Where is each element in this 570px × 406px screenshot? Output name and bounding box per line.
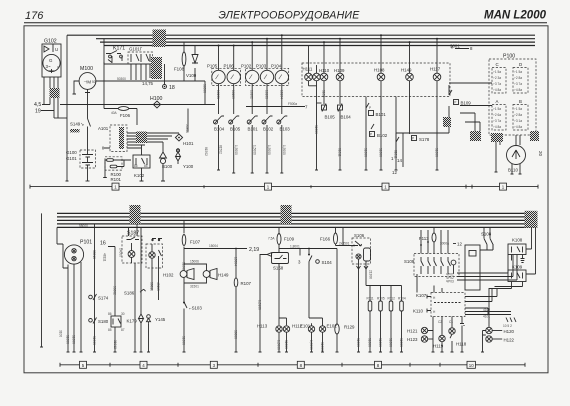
- svg-text:1,5100: 1,5100: [257, 300, 261, 310]
- svg-text:1,5000: 1,5000: [282, 145, 286, 155]
- svg-text:81502: 81502: [219, 145, 223, 154]
- svg-text:F106: F106: [120, 113, 131, 118]
- bus hatch label 30000: [153, 30, 167, 48]
- top power bus: [67, 35, 535, 45]
- svg-text:10 5 2: 10 5 2: [503, 324, 512, 328]
- svg-text:15004: 15004: [209, 244, 218, 248]
- switch S158: [257, 249, 288, 353]
- svg-text:S180: S180: [98, 319, 109, 324]
- sensor B100: [160, 142, 173, 181]
- svg-text:31000: 31000: [92, 336, 96, 345]
- svg-text:16: 16: [100, 241, 106, 247]
- svg-text:H118: H118: [456, 342, 467, 347]
- svg-text:M100: M100: [80, 66, 93, 72]
- connector strip 1 (mid): [30, 183, 538, 190]
- instrument unit P100: [489, 54, 536, 136]
- lamp E101: [300, 318, 323, 352]
- switch S149: [70, 119, 91, 151]
- svg-text:31503: 31503: [181, 262, 185, 271]
- bus junction dots: [251, 34, 438, 43]
- svg-text:31000: 31000: [72, 335, 76, 344]
- terminal 18: [163, 64, 175, 91]
- svg-text:3181: 3181: [322, 90, 326, 97]
- svg-text:4101: 4101: [483, 315, 490, 319]
- svg-text:31012: 31012: [113, 340, 117, 349]
- lamp H149: [401, 42, 413, 134]
- svg-text:H117: H117: [430, 67, 441, 72]
- svg-text:B102: B102: [263, 127, 274, 132]
- fuse F107: [182, 220, 200, 248]
- switch S178: [395, 97, 430, 171]
- sensor B101 (pressure): [365, 97, 387, 171]
- wire F500a: [246, 102, 308, 110]
- lamp H118: [449, 321, 467, 353]
- wire labels lamps: [314, 90, 439, 159]
- resistor R111: [367, 286, 374, 353]
- lamp H111: [303, 46, 317, 86]
- svg-text:85: 85: [108, 328, 112, 332]
- svg-text:14: 14: [397, 158, 402, 163]
- switch S108: [481, 227, 493, 249]
- svg-text:31501: 31501: [190, 285, 199, 289]
- speed sensor B110: [491, 133, 526, 174]
- control unit A101: [98, 125, 131, 152]
- svg-text:⌐1 5a: ⌐1 5a: [514, 70, 522, 74]
- wire label 10000: [70, 129, 80, 132]
- switch S180: [89, 318, 109, 346]
- lamp H120: [486, 327, 515, 334]
- svg-text:58000: 58000: [79, 224, 88, 228]
- svg-text:⌐S103: ⌐S103: [189, 306, 202, 311]
- svg-text:15004: 15004: [233, 257, 237, 266]
- svg-text:K110: K110: [413, 309, 423, 314]
- middle bus hatch 3: [525, 211, 538, 228]
- svg-text:Y145: Y145: [155, 317, 166, 322]
- svg-text:30010: 30010: [150, 282, 154, 291]
- switch S103: [181, 262, 202, 352]
- wire 15004 to 2,19: [184, 244, 259, 253]
- G102 pin wires: [41, 77, 58, 118]
- svg-text:A101: A101: [98, 126, 109, 131]
- lamp H109: [334, 39, 345, 104]
- gauge P103: [256, 39, 274, 114]
- svg-text:S178: S178: [419, 137, 430, 142]
- lamp E102: [319, 318, 337, 352]
- svg-text:14,75: 14,75: [142, 81, 154, 86]
- svg-text:40A: 40A: [111, 111, 118, 115]
- sensor B102 (pressure): [370, 97, 388, 171]
- svg-text:K107: K107: [416, 293, 427, 298]
- svg-text:31000: 31000: [320, 342, 324, 351]
- bottom wire labels: [219, 145, 286, 155]
- svg-text:2x8501: 2x8501: [339, 241, 350, 245]
- svg-text:K108: K108: [512, 238, 523, 243]
- switch S174: [89, 224, 109, 352]
- wire labels NP: [446, 255, 517, 284]
- gauge P106: [224, 45, 241, 115]
- gauge wire labels: [216, 90, 283, 99]
- header model: [484, 10, 547, 22]
- svg-text:P100: P100: [503, 54, 515, 60]
- svg-text:30000: 30000: [233, 330, 237, 339]
- svg-text:B105: B105: [230, 127, 241, 132]
- sender B105: [229, 116, 241, 173]
- horn H149: [202, 264, 229, 283]
- svg-text:P106: P106: [224, 64, 235, 69]
- lamp H121: [407, 321, 435, 353]
- svg-text:S106: S106: [354, 233, 365, 238]
- wire bundle to H101: [131, 132, 179, 149]
- indicator lamp cluster box: [302, 63, 450, 97]
- svg-text:Y100: Y100: [183, 164, 194, 169]
- svg-text:12: 12: [457, 242, 462, 247]
- svg-text:1,5000: 1,5000: [276, 340, 280, 350]
- gauge P105: [207, 45, 225, 115]
- sender B103: [277, 116, 291, 173]
- svg-text:B109: B109: [461, 101, 472, 106]
- svg-text:81502: 81502: [204, 147, 208, 156]
- svg-text:B104: B104: [214, 127, 225, 132]
- svg-text:B102: B102: [377, 133, 388, 138]
- svg-text:C1: C1: [449, 320, 453, 324]
- svg-text:R107: R107: [241, 281, 252, 286]
- svg-text:H109: H109: [334, 68, 345, 73]
- svg-text:87: 87: [121, 328, 125, 332]
- svg-text:H122: H122: [504, 338, 515, 343]
- lamp H119: [433, 321, 445, 353]
- svg-text:C: C: [496, 62, 499, 67]
- switch S104: [308, 249, 332, 319]
- svg-text:P: P: [369, 106, 371, 110]
- svg-text:R101: R101: [111, 177, 122, 182]
- switch S186: [124, 263, 146, 352]
- terminal 16: [100, 241, 117, 311]
- svg-text:31000: 31000: [66, 335, 70, 344]
- svg-text:4102: 4102: [483, 308, 490, 312]
- svg-text:F108: F108: [174, 67, 185, 72]
- header rule: [24, 22, 547, 24]
- svg-text:⊣M: ⊣M: [84, 80, 92, 85]
- fuse F106: [104, 62, 137, 125]
- wire hatch labels under switch: [151, 57, 162, 79]
- svg-text:4,5: 4,5: [34, 102, 41, 108]
- svg-text:16102: 16102: [250, 90, 254, 99]
- svg-text:1,5000: 1,5000: [267, 145, 271, 155]
- left feed wire: [40, 213, 43, 347]
- svg-text:P103: P103: [256, 64, 267, 69]
- net label 3001-8: [450, 44, 473, 52]
- lamp H112: [279, 318, 303, 352]
- svg-text:⌐3 7a: ⌐3 7a: [493, 82, 501, 86]
- svg-text:1,5000: 1,5000: [252, 145, 256, 155]
- svg-text:B103: B103: [280, 127, 291, 132]
- resistors R100 R101: [103, 157, 131, 182]
- fuse F113: [419, 227, 462, 253]
- P100 pin rows: [493, 70, 522, 129]
- svg-text:3001: 3001: [450, 44, 460, 49]
- svg-text:S186: S186: [124, 291, 135, 296]
- lamp H122: [481, 331, 515, 353]
- svg-text:P101: P101: [80, 240, 92, 246]
- svg-text:E101: E101: [300, 324, 311, 329]
- gauge P104: [271, 35, 288, 114]
- svg-text:176: 176: [25, 10, 44, 22]
- battery G100/G101: [66, 150, 96, 181]
- header page number: [25, 10, 44, 22]
- svg-text:S109: S109: [404, 259, 415, 264]
- svg-text:14000: 14000: [119, 248, 123, 257]
- svg-text:⌐3 7a: ⌐3 7a: [493, 119, 501, 123]
- diode V100: [186, 46, 198, 82]
- svg-text:G101Г: G101Г: [129, 47, 143, 52]
- connector strip 2 (bottom): [60, 361, 525, 368]
- svg-text:B104: B104: [341, 115, 352, 120]
- svg-text:G101: G101: [66, 156, 77, 161]
- svg-text:31000: 31000: [314, 125, 318, 134]
- svg-text:F500a: F500a: [288, 102, 297, 106]
- svg-text:P104: P104: [271, 64, 282, 69]
- svg-text:31000: 31000: [181, 336, 185, 345]
- relay K102: [133, 145, 150, 181]
- svg-text:P: P: [412, 137, 414, 141]
- svg-text:86: 86: [108, 312, 112, 316]
- svg-text:58002: 58002: [113, 286, 117, 295]
- svg-text:⌐2 6a: ⌐2 6a: [493, 113, 501, 117]
- svg-text:⌐1 5a: ⌐1 5a: [514, 107, 522, 111]
- P101 wire labels: [59, 250, 107, 344]
- svg-text:10: 10: [469, 363, 474, 368]
- svg-text:36300: 36300: [203, 84, 207, 93]
- svg-text:31000: 31000: [356, 338, 360, 347]
- svg-text:P102: P102: [241, 64, 252, 69]
- resistor rail: [366, 285, 402, 287]
- svg-text:48113: 48113: [156, 282, 160, 291]
- starter motor M100: [73, 66, 96, 119]
- lamp H117: [430, 39, 441, 170]
- svg-text:16105: 16105: [231, 90, 235, 99]
- svg-text:H121: H121: [407, 329, 418, 334]
- svg-text:K109: K109: [512, 265, 523, 270]
- header title: [219, 10, 361, 22]
- svg-text:16101: 16101: [216, 90, 220, 99]
- K107 pin C4 down: [460, 321, 465, 353]
- svg-text:31000: 31000: [388, 338, 392, 347]
- svg-text:⌐4 8a: ⌐4 8a: [493, 88, 501, 92]
- svg-text:81811: 81811: [338, 148, 342, 157]
- K107 right wiring: [465, 289, 516, 329]
- svg-text:S149↘: S149↘: [70, 122, 84, 127]
- svg-text:31000: 31000: [367, 338, 371, 347]
- svg-text:F107: F107: [190, 240, 201, 245]
- svg-text:⌐4 8a: ⌐4 8a: [514, 125, 522, 129]
- svg-text:1,8001: 1,8001: [290, 244, 300, 248]
- svg-text:3~: 3~: [46, 64, 51, 69]
- sender B102: [262, 116, 274, 173]
- resistor R112: [388, 286, 396, 353]
- svg-text:15006: 15006: [190, 260, 199, 264]
- svg-text:30010: 30010: [92, 250, 96, 259]
- svg-text:G: G: [49, 58, 53, 63]
- fuse F109: [268, 227, 295, 248]
- svg-text:31000: 31000: [378, 338, 382, 347]
- gauge P102: [241, 42, 259, 114]
- svg-text:16103: 16103: [265, 90, 269, 99]
- svg-text:H120: H120: [504, 329, 515, 334]
- gauge cluster box 1: [212, 68, 241, 85]
- svg-text:7,5A: 7,5A: [268, 237, 275, 241]
- svg-text:H149: H149: [218, 273, 229, 278]
- svg-text:12: 12: [392, 170, 397, 175]
- svg-text:K171: K171: [113, 46, 125, 52]
- svg-text:1,5000: 1,5000: [234, 145, 238, 155]
- svg-text:⌐3 1a: ⌐3 1a: [514, 119, 522, 123]
- stub 3: [298, 249, 301, 265]
- sender B104: [214, 116, 225, 170]
- svg-text:R129: R129: [344, 325, 355, 330]
- svg-text:A: A: [496, 99, 499, 104]
- svg-text:⌐4 8a: ⌐4 8a: [514, 88, 522, 92]
- svg-text:P: P: [454, 101, 456, 105]
- E102 R129 wire labels: [416, 292, 418, 294]
- svg-text:31000: 31000: [435, 148, 439, 157]
- svg-text:U: U: [55, 47, 58, 52]
- display unit: [465, 244, 493, 290]
- svg-text:31000: 31000: [399, 338, 403, 347]
- svg-text:50: 50: [92, 80, 96, 84]
- svg-text:H101: H101: [183, 141, 194, 146]
- P100 right hatch: [530, 131, 539, 141]
- svg-text:86: 86: [134, 164, 138, 168]
- middle bus hatch 2: [281, 205, 292, 224]
- svg-text:H113: H113: [257, 324, 268, 329]
- lamp H113: [257, 264, 282, 353]
- lamp H108: [374, 35, 385, 110]
- switch unit S187: [122, 224, 142, 263]
- svg-text:20: 20: [538, 151, 543, 156]
- svg-text:⌐2 8a: ⌐2 8a: [514, 113, 522, 117]
- relay K179: [108, 310, 137, 352]
- svg-text:3100: 3100: [59, 330, 63, 337]
- svg-text:⌐2 8a: ⌐2 8a: [514, 76, 522, 80]
- lamp H111b: [313, 65, 321, 103]
- svg-text:85: 85: [144, 164, 148, 168]
- svg-text:19: 19: [35, 109, 41, 115]
- svg-text:⌐3 7a: ⌐3 7a: [514, 82, 522, 86]
- svg-text:H102: H102: [163, 273, 174, 278]
- valve Y100: [176, 148, 194, 169]
- resistor R104: [398, 286, 406, 353]
- svg-text:48111: 48111: [102, 253, 106, 262]
- svg-text:ЭЛЕКТРООБОРУДОВАНИЕ: ЭЛЕКТРООБОРУДОВАНИЕ: [219, 10, 361, 22]
- svg-text:B110: B110: [508, 168, 518, 173]
- middle power bus: [57, 213, 537, 227]
- feed rail 1,8001: [279, 244, 337, 249]
- svg-text:31000: 31000: [284, 340, 288, 349]
- lamp H123: [407, 336, 433, 342]
- sensor B105 (cab): [315, 103, 335, 170]
- relay K171: [104, 39, 152, 64]
- P100 input wires: [449, 83, 492, 141]
- ignition switch G101G: [128, 47, 153, 81]
- switch pack S109: [404, 230, 459, 277]
- resistor R107: [233, 249, 251, 353]
- border frame: [24, 26, 548, 373]
- svg-text:18: 18: [169, 85, 175, 91]
- svg-text:H149: H149: [401, 68, 412, 73]
- svg-text:D: D: [519, 62, 522, 67]
- horn H102: [163, 249, 202, 289]
- svg-text:K179: K179: [127, 319, 138, 324]
- svg-text:MAN L2000: MAN L2000: [484, 10, 547, 22]
- svg-text:50306: 50306: [185, 124, 189, 133]
- fuse F166: [320, 227, 358, 246]
- switch S106: [352, 233, 373, 352]
- svg-text:S158: S158: [273, 266, 284, 271]
- svg-text:B101: B101: [248, 127, 259, 132]
- relay K109: [489, 228, 536, 327]
- svg-text:21306: 21306: [369, 270, 373, 279]
- middle bus hatch 1: [130, 205, 141, 224]
- svg-text:K102: K102: [134, 173, 145, 178]
- svg-text:ЧР03: ЧР03: [446, 280, 454, 284]
- alternator G102: [42, 39, 61, 78]
- svg-text:50300: 50300: [117, 77, 126, 81]
- svg-text:H108: H108: [374, 68, 385, 73]
- svg-text:31000: 31000: [364, 148, 368, 157]
- svg-text:⌐4 8a: ⌐4 8a: [493, 125, 501, 129]
- svg-text:H111: H111: [303, 67, 313, 72]
- wire from bus1 down left column: [54, 35, 69, 181]
- svg-text:⌐1 5a: ⌐1 5a: [493, 70, 501, 74]
- svg-text:G100: G100: [66, 150, 77, 155]
- svg-text:16104: 16104: [279, 90, 283, 99]
- svg-text:B: B: [519, 99, 522, 104]
- svg-text:S174: S174: [98, 296, 109, 301]
- svg-text:1,5000: 1,5000: [309, 340, 313, 350]
- sender B101: [247, 116, 258, 173]
- svg-text:⌐2 3a: ⌐2 3a: [493, 76, 501, 80]
- terminal 4,5 / 19: [34, 102, 41, 115]
- P100 pin stubs 1 14 12: [391, 133, 449, 175]
- svg-text:P: P: [370, 133, 372, 137]
- lamp H110: [319, 42, 330, 104]
- relay K108: [508, 228, 532, 263]
- gauge cluster box 2: [246, 68, 289, 85]
- svg-text:31000: 31000: [379, 148, 383, 157]
- fuse F108: [174, 42, 186, 81]
- lamp H101: [175, 109, 194, 147]
- relay K107: [413, 274, 465, 324]
- tachograph P101: [57, 227, 92, 352]
- svg-text:B105: B105: [325, 115, 336, 120]
- pressure switch B109: [443, 85, 471, 133]
- svg-text:B100: B100: [162, 164, 173, 169]
- svg-text:S104: S104: [322, 260, 333, 265]
- svg-text:P105: P105: [207, 64, 218, 69]
- wire 50300: [96, 77, 205, 105]
- lamp H100: [60, 96, 215, 108]
- resistor R129: [335, 249, 355, 353]
- svg-text:F109: F109: [284, 237, 295, 242]
- G102 wire labels hatch: [50, 88, 60, 98]
- svg-text:F166: F166: [320, 237, 331, 242]
- valve Y145: [139, 227, 166, 352]
- svg-text:2,19: 2,19: [249, 247, 259, 253]
- svg-text:30: 30: [121, 312, 125, 316]
- svg-text:H123: H123: [407, 337, 418, 342]
- svg-text:⌐1 5a: ⌐1 5a: [493, 107, 501, 111]
- switch unit S187b: [146, 239, 163, 301]
